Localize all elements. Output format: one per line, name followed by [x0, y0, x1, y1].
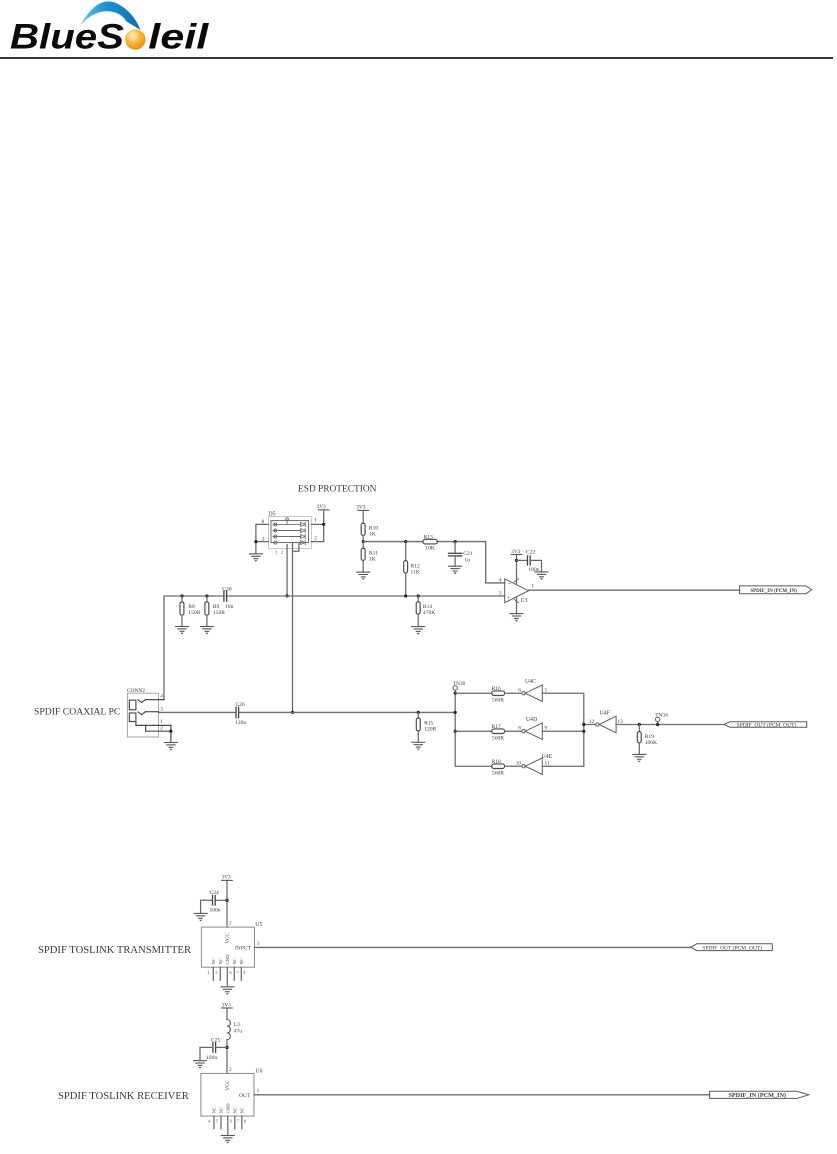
inverter U4E: [522, 765, 525, 768]
svg-text:SPDIF_IN (PCM_IN): SPDIF_IN (PCM_IN): [750, 589, 797, 594]
svg-text:2: 2: [281, 550, 284, 555]
svg-text:3V3: 3V3: [222, 875, 231, 881]
inductor L3 47u: [227, 1020, 230, 1040]
svg-text:C25: C25: [211, 1037, 221, 1043]
svg-text:ESD PROTECTION: ESD PROTECTION: [298, 485, 377, 495]
net tag SPDIF_OUT (PCM_OUT) tx: [691, 944, 773, 951]
svg-text:8: 8: [518, 726, 521, 732]
op-amp U3: [505, 579, 529, 603]
resistor R13 10K: [423, 539, 437, 544]
junction R12 top: [404, 540, 407, 543]
svg-text:U4E: U4E: [542, 754, 553, 760]
svg-text:100n: 100n: [210, 908, 221, 914]
wire U4E in from bus: [542, 765, 584, 767]
wire branch1: [455, 692, 492, 694]
svg-text:1u: 1u: [464, 558, 470, 564]
connector CONN2: [127, 693, 158, 737]
inverter U4C: [522, 692, 525, 695]
capacitor C30 10n (series in net B): [223, 591, 225, 601]
junction C25: [225, 1046, 228, 1049]
svg-text:1: 1: [532, 584, 535, 590]
resistor R11 1K: [362, 542, 364, 549]
junction R19: [638, 723, 641, 726]
svg-text:TN34: TN34: [655, 712, 668, 718]
svg-text:GND: GND: [226, 1103, 231, 1114]
test point TN30: [453, 686, 457, 690]
svg-text:7: 7: [237, 1119, 239, 1124]
svg-text:560R: 560R: [492, 771, 504, 777]
svg-text:6: 6: [230, 970, 232, 975]
junction D5 left: [254, 540, 257, 543]
resistor R14 470K: [417, 596, 419, 602]
svg-text:R15: R15: [424, 720, 434, 726]
ground (R19): [633, 754, 646, 762]
power 3V3 (op-amp): [511, 554, 522, 556]
svg-text:NC: NC: [233, 1107, 238, 1113]
wire U6 output to tag: [254, 1094, 710, 1096]
junction bus/netC: [454, 711, 457, 714]
svg-text:SPDIF_IN (PCM_IN): SPDIF_IN (PCM_IN): [728, 1092, 786, 1099]
wire net A: [363, 542, 505, 583]
svg-text:L3: L3: [234, 1022, 240, 1028]
svg-text:R16: R16: [492, 686, 502, 692]
svg-text:3: 3: [160, 706, 163, 712]
junction D5 right: [322, 523, 325, 526]
svg-text:BlueS: BlueS: [10, 18, 124, 57]
junction bus2/branch2: [582, 730, 585, 733]
diode array D5: [269, 517, 312, 549]
inverter U4F: [596, 723, 599, 726]
junction D5 pinB / net C: [291, 711, 294, 714]
svg-text:12: 12: [589, 719, 595, 725]
wire CONN2 pin3 internal: [146, 711, 159, 713]
junction R15: [417, 711, 420, 714]
resistor R17 560R: [492, 729, 505, 734]
BlueSoleil logo ball: [125, 29, 145, 49]
svg-text:VCC: VCC: [226, 1080, 231, 1091]
svg-text:5: 5: [216, 970, 218, 975]
svg-text:4: 4: [208, 970, 210, 975]
resistor R9 150R: [206, 596, 208, 602]
svg-text:1: 1: [257, 1088, 260, 1094]
svg-text:NC: NC: [240, 1107, 245, 1113]
svg-text:leil: leil: [148, 18, 210, 57]
capacitor C22 100n: [517, 559, 528, 561]
wire U4D in from bus: [542, 730, 584, 732]
wire net B: [164, 596, 505, 700]
left pads: [274, 523, 277, 526]
svg-text:4: 4: [160, 694, 163, 700]
junction C24: [225, 899, 228, 902]
svg-text:3V3: 3V3: [317, 504, 326, 510]
svg-text:R18: R18: [492, 759, 502, 765]
wire 3V3 to U5: [226, 880, 228, 927]
right diodes: [301, 522, 306, 526]
wire D5 bottom pin A (to net B): [286, 545, 288, 596]
wire CONN2 pin4 internal: [146, 699, 165, 701]
wire U4F input line to tag: [616, 724, 724, 726]
svg-text:3V3: 3V3: [222, 1002, 231, 1008]
capacitor C26 130n (series): [235, 707, 237, 718]
ground (D5 left rail): [249, 554, 262, 562]
junction C21 top: [454, 540, 457, 543]
svg-text:2: 2: [314, 536, 317, 542]
IC U6 toslink receiver: [201, 1073, 254, 1116]
junction bus/branch2: [454, 730, 457, 733]
top-center pin: [286, 518, 289, 521]
wire 3V3 to L3: [226, 1008, 228, 1020]
ground (U6 gnd pin): [221, 1136, 234, 1144]
svg-text:120R: 120R: [424, 727, 436, 733]
resistor R16 560R: [492, 691, 505, 696]
svg-text:U4C: U4C: [525, 679, 536, 685]
net tag SPDIF_IN (PCM_IN) top: [740, 586, 812, 594]
svg-text:47u: 47u: [234, 1029, 243, 1035]
svg-text:U4F: U4F: [600, 710, 611, 716]
ground (R15): [412, 742, 425, 750]
junction bus2/U4F: [582, 723, 585, 726]
svg-text:1K: 1K: [369, 531, 376, 537]
svg-text:8: 8: [244, 1119, 246, 1124]
resistor R19 100K: [638, 725, 640, 732]
svg-text:U4D: U4D: [526, 717, 537, 723]
svg-text:6: 6: [230, 1119, 232, 1124]
ground (C22): [535, 572, 548, 580]
junction C22: [515, 559, 518, 562]
wire net C: [158, 711, 455, 713]
svg-text:1: 1: [275, 550, 278, 555]
ground (R9): [200, 627, 213, 635]
svg-text:D5: D5: [269, 511, 276, 517]
svg-text:C30: C30: [222, 586, 232, 592]
BlueSoleil logo swoosh: [80, 1, 141, 30]
svg-text:7: 7: [237, 970, 239, 975]
wire branch3: [455, 765, 492, 767]
ground (C25): [194, 1061, 207, 1069]
svg-text:3V3: 3V3: [356, 504, 365, 510]
ground (R14): [412, 627, 425, 635]
svg-text:NC: NC: [218, 958, 223, 964]
svg-text:C22: C22: [526, 550, 536, 556]
test point TN34: [655, 717, 659, 721]
resistor R8 150R: [181, 596, 183, 602]
svg-text:NC: NC: [232, 958, 237, 964]
ground (R8): [176, 627, 189, 635]
svg-text:5: 5: [216, 1119, 218, 1124]
wire U3 gnd pin: [516, 597, 518, 614]
svg-text:SPDIF_OUT (PCM_OUT): SPDIF_OUT (PCM_OUT): [702, 944, 762, 951]
net tag SPDIF_IN (PCM_IN) rx: [710, 1091, 809, 1098]
junction R10/R11/netA: [362, 540, 365, 543]
svg-text:OUT: OUT: [239, 1093, 251, 1099]
svg-text:VCC: VCC: [226, 933, 231, 944]
power 3V3 (above R10): [358, 509, 369, 511]
power 3V3 (U5): [222, 879, 233, 881]
svg-text:SPDIF COAXIAL PC: SPDIF COAXIAL PC: [34, 707, 120, 718]
svg-text:SPDIF TOSLINK RECEIVER: SPDIF TOSLINK RECEIVER: [58, 1091, 190, 1102]
power tick marks on U3: [514, 579, 519, 582]
junction bus/TN30/branch1: [454, 692, 457, 695]
junction CONN2 gnd: [169, 730, 172, 733]
capacitor C25 100n: [216, 1046, 227, 1048]
row lines: [273, 523, 301, 525]
svg-text:10K: 10K: [425, 546, 435, 552]
svg-text:NC: NC: [211, 958, 216, 964]
junction R12 bottom: [404, 594, 407, 597]
wire 3V3 to U3 vcc: [516, 555, 518, 585]
svg-text:C24: C24: [210, 890, 220, 896]
resistor R18 560R: [492, 764, 505, 769]
svg-text:11K: 11K: [411, 569, 420, 575]
ground (C21): [449, 566, 462, 574]
svg-text:150R: 150R: [188, 610, 200, 616]
header rule: [0, 57, 833, 59]
wire U5 output to tag: [255, 946, 691, 948]
svg-text:GND: GND: [225, 954, 230, 965]
wire CONN2 ground drop: [170, 725, 172, 742]
svg-text:1: 1: [160, 719, 163, 725]
svg-text:CONN2: CONN2: [127, 688, 145, 694]
wire D5 right pins to 3V3 rail: [311, 510, 323, 542]
junction TN34: [656, 723, 659, 726]
wire U3 output to SPDIF_IN tag: [529, 589, 740, 591]
power 3V3 (U6): [222, 1007, 233, 1009]
svg-text:100K: 100K: [645, 740, 657, 746]
svg-text:NC: NC: [219, 1107, 224, 1113]
svg-text:1: 1: [314, 518, 317, 524]
svg-text:NC: NC: [239, 958, 244, 964]
svg-text:2: 2: [229, 1067, 232, 1073]
junction R14 top: [417, 594, 420, 597]
wire left bus: [454, 693, 456, 766]
U6 bottom NC pins: [214, 1116, 242, 1135]
svg-text:3: 3: [257, 941, 260, 947]
wire L3 to U6: [226, 1040, 228, 1074]
svg-text:U6: U6: [255, 1068, 262, 1074]
svg-text:10: 10: [516, 761, 522, 767]
svg-text:560R: 560R: [492, 736, 504, 742]
svg-text:4: 4: [208, 1119, 210, 1124]
svg-text:150R: 150R: [213, 610, 225, 616]
junction R8: [180, 594, 183, 597]
ground (C24): [194, 913, 207, 921]
inverter U4D: [522, 730, 525, 733]
wire U4C in from bus: [542, 693, 584, 766]
ground (U3): [510, 614, 523, 622]
svg-text:+: +: [507, 595, 511, 602]
svg-text:SPDIF_OUT (PCM_OUT): SPDIF_OUT (PCM_OUT): [737, 721, 797, 728]
capacitor C24 100n: [215, 899, 227, 901]
svg-text:100n: 100n: [206, 1055, 217, 1061]
svg-text:−: −: [508, 581, 512, 588]
IC U5 toslink transmitter: [201, 927, 254, 967]
wire D5 left pins to left rail: [256, 524, 269, 554]
svg-text:560R: 560R: [492, 698, 504, 704]
svg-text:1K: 1K: [369, 556, 376, 562]
resistor R15 120R: [417, 712, 419, 718]
svg-text:SPDIF TOSLINK TRANSMITTER: SPDIF TOSLINK TRANSMITTER: [38, 945, 192, 956]
junction R9: [205, 594, 208, 597]
capacitor C21 1u: [454, 542, 456, 554]
resistor R12 11K: [405, 542, 407, 561]
svg-text:10n: 10n: [225, 604, 234, 610]
svg-text:TN30: TN30: [453, 681, 466, 687]
svg-text:4: 4: [499, 578, 502, 584]
wire CONN2 pin1 sleeve: [136, 722, 171, 726]
svg-text:INPUT: INPUT: [235, 946, 252, 952]
svg-text:470K: 470K: [423, 610, 435, 616]
svg-text:C21: C21: [463, 551, 473, 557]
U5 bottom NC pins: [213, 967, 241, 986]
wire D5 bottom pin B (to net C): [293, 543, 299, 713]
svg-text:8: 8: [244, 970, 246, 975]
wire bus2 to U4F: [584, 724, 596, 726]
svg-text:U5: U5: [255, 922, 262, 928]
svg-text:NC: NC: [212, 1107, 217, 1113]
net tag SPDIF_OUT (PCM_OUT) mid: [724, 722, 807, 728]
ground (CONN2): [164, 743, 177, 751]
ground (R11): [357, 572, 370, 580]
svg-text:6: 6: [518, 688, 521, 694]
wire branch2: [455, 730, 492, 732]
svg-text:3: 3: [499, 590, 502, 596]
svg-text:R17: R17: [492, 724, 502, 730]
power 3V3 (above D5): [318, 509, 329, 511]
svg-text:2: 2: [229, 920, 232, 926]
junction D5 pinA / net B: [286, 594, 289, 597]
svg-text:R13: R13: [424, 534, 434, 540]
resistor R10 1K: [362, 510, 364, 523]
svg-text:U3: U3: [521, 598, 528, 604]
svg-text:130n: 130n: [235, 720, 246, 726]
wire CONN2 pin2 sleeve: [146, 725, 171, 731]
ground (U5 gnd pin): [221, 987, 234, 995]
svg-text:C26: C26: [236, 702, 246, 708]
